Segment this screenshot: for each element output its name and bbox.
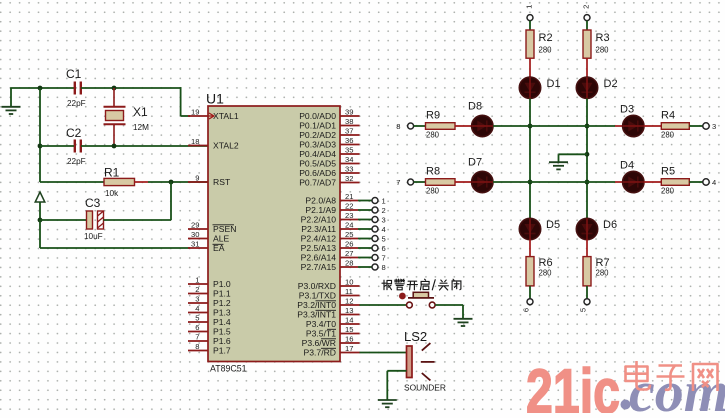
wire: vertical gnd bus x40 (39, 88, 41, 182)
svg-text:P0.7/AD7: P0.7/AD7 (299, 178, 336, 188)
svg-text:R2: R2 (539, 32, 553, 44)
capacitor C2 (66, 126, 86, 166)
wire: P2.2/A10 to terminal 3 (358, 219, 372, 221)
sounder sound waves (421, 343, 435, 380)
pin 34 P0.5/AD5 (right) (299, 155, 359, 169)
svg-text:2: 2 (382, 206, 386, 215)
svg-text:6: 6 (195, 323, 199, 332)
pin 33 P0.6/AD6 (right) (299, 165, 359, 179)
pin 26 P2.5/A13 (right) (301, 240, 358, 254)
pin 37 P0.2/AD2 (right) (299, 127, 359, 141)
svg-text:P3.3/INT1: P3.3/INT1 (297, 310, 336, 320)
svg-text:7: 7 (195, 333, 199, 342)
svg-text:27: 27 (345, 249, 353, 258)
resistor R1 (104, 166, 135, 199)
svg-text:P0.1/AD1: P0.1/AD1 (299, 121, 336, 131)
svg-text:D7: D7 (468, 157, 482, 169)
wire: R6 to terminal 6 (529, 286, 531, 299)
svg-text:P2.6/A14: P2.6/A14 (301, 253, 337, 263)
node terminal 3 (372, 216, 386, 225)
wire: P2.4/A12 to terminal 5 (358, 238, 372, 240)
wire: P2.3/A11 to terminal 4 (358, 228, 372, 230)
svg-text:21: 21 (345, 192, 353, 201)
wire: R1 to RST (135, 181, 209, 183)
logo 21ic (526, 357, 620, 418)
svg-text:P3.4/T0: P3.4/T0 (306, 319, 336, 329)
pin 32 P0.7/AD7 (right) (299, 174, 359, 188)
capacitor C1 (66, 67, 86, 108)
svg-text:P1.3: P1.3 (213, 308, 231, 318)
svg-text:280: 280 (661, 187, 675, 196)
svg-text:RST: RST (213, 177, 231, 187)
svg-text:C1: C1 (66, 67, 82, 81)
wire: terminal 1 to R2 (529, 21, 531, 30)
logo com (629, 359, 725, 418)
svg-text:P2.3/A11: P2.3/A11 (301, 224, 336, 234)
node: X1 bottom junction (112, 144, 117, 149)
svg-text:36: 36 (345, 136, 353, 145)
logo 电子网 (626, 361, 718, 391)
logo dot (621, 400, 631, 410)
svg-text:280: 280 (426, 187, 440, 196)
node terminal 7 (372, 254, 386, 263)
svg-text:U1: U1 (206, 91, 224, 107)
pushbutton actuator (408, 292, 434, 298)
svg-text:AT89C51: AT89C51 (210, 364, 247, 374)
svg-text:32: 32 (345, 174, 353, 183)
svg-text:R5: R5 (661, 166, 675, 178)
wire: VCC down to EA pin (40, 219, 190, 248)
svg-text:D6: D6 (603, 219, 617, 231)
svg-text:280: 280 (426, 131, 440, 140)
svg-text:10uF: 10uF (84, 232, 103, 241)
svg-text:P3.1/TXD: P3.1/TXD (299, 291, 336, 301)
resistor R7 280 (583, 257, 610, 286)
pushbutton state dot (399, 293, 406, 300)
pin 18 XTAL2 (left) (188, 137, 239, 151)
pin 9 RST (left) (188, 174, 231, 188)
resistor R5 280 (661, 166, 689, 196)
node: ground tap junction col2 (585, 152, 590, 157)
node terminal 7 (row 2 left) (408, 179, 414, 185)
wire: col2 to D3 row 1 (615, 125, 623, 127)
wire: R2 to D1 (529, 58, 531, 78)
label AT89C51 (210, 364, 247, 374)
svg-text:8: 8 (382, 263, 386, 272)
svg-text:1: 1 (195, 276, 199, 285)
node: junction x40 on C1 row (38, 86, 43, 91)
node terminal 3 (row 1 right) (703, 122, 716, 131)
resistor R8 280 (426, 166, 456, 196)
pin 7 P1.6 (left) (188, 333, 231, 347)
svg-text:12M: 12M (133, 123, 149, 132)
pushbutton contacts (407, 302, 436, 308)
pin 1 P1.0 (left) (188, 276, 231, 290)
svg-text:R8: R8 (426, 166, 440, 178)
node: row2 junction col1 (528, 180, 533, 185)
svg-text:D8: D8 (468, 101, 482, 113)
svg-text:7: 7 (396, 178, 400, 187)
svg-text:280: 280 (596, 46, 610, 55)
node terminal 5 (372, 235, 386, 244)
svg-text:P3.2/INT0: P3.2/INT0 (297, 300, 336, 310)
node: junction x40 C2 row (38, 144, 43, 149)
svg-text:LS2: LS2 (404, 329, 427, 344)
svg-text:P0.6/AD6: P0.6/AD6 (299, 168, 336, 178)
svg-text:D2: D2 (604, 78, 618, 90)
svg-text:18: 18 (191, 137, 199, 146)
diode LED D6 (576, 218, 617, 240)
svg-text:P3.7/RD: P3.7/RD (304, 348, 336, 358)
pin 4 P1.3 (left) (188, 304, 231, 318)
svg-text:X1: X1 (133, 105, 148, 119)
svg-text:P2.0/A8: P2.0/A8 (305, 196, 336, 206)
svg-text:5: 5 (579, 308, 588, 312)
pin 24 P2.3/A11 (right) (301, 221, 358, 235)
svg-text:22: 22 (345, 202, 353, 211)
svg-text:31: 31 (191, 240, 199, 249)
svg-text:39: 39 (345, 108, 353, 117)
svg-text:P2.2/A10: P2.2/A10 (301, 215, 337, 225)
svg-text:1: 1 (525, 5, 534, 9)
svg-text:P1.1: P1.1 (213, 289, 231, 299)
wire: P2.0/A8 to terminal 1 (358, 200, 372, 202)
wire: col2 to D4 row 2 (615, 181, 623, 183)
svg-text:38: 38 (345, 117, 353, 126)
svg-text:R4: R4 (661, 110, 675, 122)
pin 27 P2.6/A14 (right) (301, 249, 358, 263)
svg-text:25: 25 (345, 230, 353, 239)
pin 38 P0.1/AD1 (right) (299, 117, 359, 131)
resistor R2 280 (526, 30, 553, 58)
svg-text:10: 10 (345, 278, 353, 287)
node: junction x40 C3 row (38, 218, 43, 223)
svg-text:29: 29 (191, 221, 199, 230)
wire: D4 to R5 (644, 181, 661, 183)
svg-text:11: 11 (345, 287, 353, 296)
pin 19 XTAL1 (left) (188, 108, 239, 122)
wire: terminal 7 to R8 (414, 181, 426, 183)
svg-text:SOUNDER: SOUNDER (404, 383, 446, 393)
svg-text:D1: D1 (547, 78, 561, 90)
svg-text:1: 1 (382, 197, 386, 206)
pin 13 P3.3/INT1 (right) (297, 306, 359, 320)
pin 22 P2.1/A9 (right) (305, 202, 358, 216)
pin 2 P1.1 (left) (188, 285, 231, 299)
svg-text:15: 15 (345, 325, 353, 334)
node terminal 1 (top col 1) (525, 5, 534, 21)
svg-text:3: 3 (382, 216, 386, 225)
wire: C1 right to XTAL1 corner (81, 87, 190, 116)
svg-text:12: 12 (345, 297, 353, 306)
svg-text:21ic: 21ic (526, 357, 620, 413)
diode LED D2 (576, 77, 617, 98)
wire: P3.7 to sounder LS2 (360, 352, 407, 354)
pin 29 PSEN (left) (188, 221, 236, 235)
pin 21 P2.0/A8 (right) (305, 192, 358, 206)
svg-text:280: 280 (596, 269, 610, 278)
wire: GND to C1 left (10, 87, 74, 89)
svg-text:ALE: ALE (213, 234, 230, 244)
svg-text:6: 6 (382, 244, 386, 253)
pin 10 P3.0/RXD (right) (298, 278, 360, 292)
svg-text:16: 16 (345, 335, 353, 344)
svg-text:280: 280 (661, 131, 675, 140)
svg-text:8: 8 (396, 122, 400, 131)
label terminal number 8 (396, 122, 400, 131)
ground (top-left) (2, 88, 21, 114)
svg-text:280: 280 (539, 46, 553, 55)
wire: C3 to RST junction (104, 181, 172, 220)
wire: col2 to middle ground (559, 154, 588, 162)
node: X1 top junction (112, 86, 117, 91)
svg-text:33: 33 (345, 165, 353, 174)
svg-text:3: 3 (712, 122, 716, 131)
diode LED D4 (620, 160, 645, 193)
wire: R4 to terminal 3 (689, 125, 702, 127)
pin 11 P3.1/TXD (right) (299, 287, 360, 301)
wire: D7 to columns row 2 (493, 181, 615, 183)
svg-text:C3: C3 (85, 196, 101, 210)
svg-text:8: 8 (195, 342, 199, 351)
svg-text:P3.6/WR: P3.6/WR (302, 338, 336, 348)
node: RST/C3 junction (169, 180, 174, 185)
node terminal 1 (372, 197, 386, 206)
svg-text:3: 3 (195, 295, 199, 304)
svg-text:P3.0/RXD: P3.0/RXD (298, 281, 336, 291)
pin 39 P0.0/AD0 (right) (299, 108, 359, 122)
svg-text:P2.5/A13: P2.5/A13 (301, 243, 337, 253)
svg-text:19: 19 (191, 108, 199, 117)
wire: R8 to D7 (455, 181, 472, 183)
resistor R4 280 (661, 110, 689, 140)
node terminal 2 (372, 206, 386, 215)
svg-text:P1.4: P1.4 (213, 317, 231, 327)
wire: button to ground (435, 305, 463, 319)
pin 30 ALE (left) (188, 230, 230, 244)
svg-text:R9: R9 (426, 110, 440, 122)
wire: R7 to terminal 5 (586, 286, 588, 299)
svg-text:P2.4/A12: P2.4/A12 (301, 234, 337, 244)
label terminal number 7 (396, 178, 400, 187)
svg-text:C2: C2 (66, 126, 82, 140)
svg-text:R7: R7 (596, 257, 610, 269)
pin 23 P2.2/A10 (right) (301, 211, 358, 225)
svg-text:P0.5/AD5: P0.5/AD5 (299, 159, 336, 169)
pin 3 P1.2 (left) (188, 295, 231, 309)
pin 25 P2.4/A12 (right) (301, 230, 358, 244)
svg-text:28: 28 (345, 259, 353, 268)
ground (matrix middle) (549, 162, 568, 169)
svg-text:22pF: 22pF (67, 157, 86, 166)
wire: D5 to R6 (529, 240, 531, 257)
pin 5 P1.4 (left) (188, 314, 231, 328)
svg-text:PSEN: PSEN (213, 224, 236, 234)
pin 16 P3.6/WR (right) (302, 335, 360, 349)
svg-text:6: 6 (522, 308, 531, 312)
svg-text:23: 23 (345, 211, 353, 220)
svg-text:XTAL2: XTAL2 (213, 141, 239, 151)
crystal X1 (104, 88, 150, 146)
diode LED D1 (519, 77, 560, 98)
svg-text:9: 9 (195, 174, 199, 183)
svg-text:35: 35 (345, 146, 353, 155)
wire: P3.2 to button (360, 304, 407, 306)
wire: D8 to columns row 1 (493, 125, 615, 127)
sounder LS2 (404, 329, 446, 393)
svg-text:R1: R1 (104, 166, 120, 180)
node terminal 2 (top col 2) (582, 5, 591, 21)
svg-text:37: 37 (345, 127, 353, 136)
wire: D2 down through rows (586, 98, 588, 218)
svg-text:24: 24 (345, 221, 353, 230)
svg-text:2: 2 (582, 5, 591, 9)
pin 14 P3.4/T0 (right) (306, 316, 360, 330)
svg-text:P1.5: P1.5 (213, 327, 231, 337)
svg-text:34: 34 (345, 155, 353, 164)
svg-text:XTAL1: XTAL1 (213, 111, 239, 121)
svg-text:P0.2/AD2: P0.2/AD2 (299, 130, 336, 140)
svg-text:17: 17 (345, 344, 353, 353)
svg-text:4: 4 (712, 178, 716, 187)
pin 31 EA (left) (188, 240, 225, 254)
svg-text:P1.7: P1.7 (213, 346, 231, 356)
ground (sounder) (378, 400, 397, 407)
wire: D3 to R4 (644, 125, 661, 127)
wire: terminal 8 to R9 (414, 125, 426, 127)
node terminal 8 (row 1 left) (408, 123, 414, 129)
diode LED D8 (468, 101, 493, 137)
svg-text:P0.4/AD4: P0.4/AD4 (299, 149, 336, 159)
capacitor C3 (electrolytic 10uF) (84, 196, 104, 241)
ground (button) (454, 319, 473, 326)
svg-text:P0.0/AD0: P0.0/AD0 (299, 111, 336, 121)
svg-text:4: 4 (382, 225, 386, 234)
wire: D1 down through rows (529, 98, 531, 218)
resistor R6 280 (526, 257, 553, 286)
pin 36 P0.3/AD3 (right) (299, 136, 359, 150)
wire: D6 to R7 (586, 240, 588, 257)
wire: C2 row to XTAL2 (40, 145, 208, 147)
node terminal 6 (bottom col 1) (522, 299, 534, 312)
svg-text:7: 7 (382, 254, 386, 263)
node terminal 6 (372, 244, 386, 253)
svg-text:30: 30 (191, 230, 199, 239)
wire: R9 to D8 (455, 125, 472, 127)
node terminal 5 (bottom col 2) (579, 299, 591, 312)
node terminal 4 (372, 225, 386, 234)
pin 12 P3.2/INT0 (right) (297, 297, 359, 311)
diode LED D3 (620, 104, 645, 137)
wire: P2.6/A14 to terminal 7 (358, 257, 372, 259)
wire: sounder to ground (387, 371, 406, 400)
pin 17 P3.7/RD (right) (304, 344, 360, 358)
pin 6 P1.5 (left) (188, 323, 231, 337)
resistor R9 280 (426, 110, 456, 140)
svg-text:R3: R3 (596, 32, 610, 44)
svg-text:P0.3/AD3: P0.3/AD3 (299, 140, 336, 150)
svg-text:280: 280 (539, 269, 553, 278)
wire: VCC to C3 (40, 219, 87, 221)
wire: P2.5/A13 to terminal 6 (358, 247, 372, 249)
resistor R3 280 (583, 30, 610, 58)
svg-text:D4: D4 (620, 160, 634, 172)
svg-text:14: 14 (345, 316, 353, 325)
svg-text:P1.6: P1.6 (213, 336, 231, 346)
svg-text:5: 5 (195, 314, 199, 323)
power terminal (VCC arrow) (35, 192, 45, 220)
node: row1 junction col1 (528, 124, 533, 129)
node: row1 junction col2 (585, 124, 590, 129)
svg-text:26: 26 (345, 240, 353, 249)
svg-text:D3: D3 (620, 104, 634, 116)
wire: P2.1/A9 to terminal 2 (358, 209, 372, 211)
label 报警开启/关闭 (alarm on/off) (382, 279, 461, 290)
svg-text:P2.1/A9: P2.1/A9 (305, 205, 336, 215)
svg-text:13: 13 (345, 306, 353, 315)
op-amp U1 AT89C51 microcontroller body (206, 91, 340, 362)
wire: R5 to terminal 4 (689, 181, 702, 183)
wire: gnd bus to R1 (40, 181, 104, 183)
node: row2 junction col2 (585, 180, 590, 185)
svg-text:P3.5/T1: P3.5/T1 (306, 329, 336, 339)
diode LED D5 (519, 218, 560, 240)
wire: P2.7/A15 to terminal 8 (358, 266, 372, 268)
svg-text:P2.7/A15: P2.7/A15 (301, 262, 337, 272)
node terminal 8 (372, 263, 386, 272)
svg-text:5: 5 (382, 235, 386, 244)
svg-text:22pF: 22pF (67, 99, 86, 108)
node terminal 4 (row 2 right) (703, 178, 716, 187)
pin 15 P3.5/T1 (right) (306, 325, 360, 339)
diode LED D7 (468, 157, 493, 193)
svg-text:2: 2 (195, 285, 199, 294)
svg-text:P1.2: P1.2 (213, 298, 231, 308)
svg-text:P1.0: P1.0 (213, 279, 231, 289)
svg-text:4: 4 (195, 304, 199, 313)
svg-text:10k: 10k (105, 189, 119, 198)
svg-text:R6: R6 (539, 257, 553, 269)
svg-text:D5: D5 (546, 219, 560, 231)
pin 28 P2.7/A15 (right) (301, 259, 358, 273)
pin 8 P1.7 (left) (188, 342, 231, 356)
wire: terminal 2 to R3 (586, 21, 588, 30)
pin 35 P0.4/AD4 (right) (299, 146, 359, 160)
wire: R3 to D2 (586, 58, 588, 78)
